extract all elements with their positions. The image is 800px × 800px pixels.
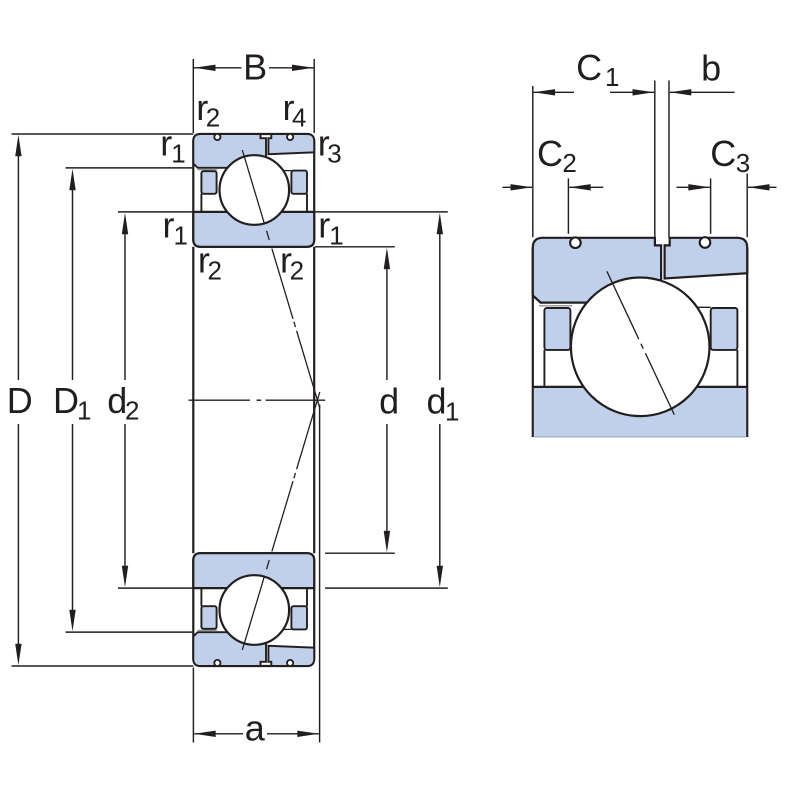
block left face [532,248,534,437]
dimension D [7,134,194,666]
dimension d2 [107,212,193,588]
svg-text:1: 1 [174,220,188,250]
svg-text:2: 2 [206,103,220,133]
inner ring [193,212,314,247]
svg-text:2: 2 [125,396,139,426]
contact angle line (detail) [607,271,674,414]
svg-text:d: d [379,381,399,422]
svg-text:C: C [576,47,602,88]
svg-text:b: b [701,48,721,89]
svg-text:2: 2 [290,255,304,285]
bottom cross-section block (mirror of top) [193,392,319,666]
dimension a [193,405,319,749]
inner ring body (cut off) [534,388,746,437]
lubrication hole dot right [287,134,293,140]
contact angle line solid through ball [242,150,264,223]
svg-text:d: d [427,381,447,422]
svg-text:B: B [243,47,267,88]
inner ring cut edge [534,436,746,438]
svg-text:D: D [7,380,33,421]
svg-text:3: 3 [327,138,341,168]
dimension b [655,48,735,238]
bearing axis centerline [189,399,250,401]
cage bar right [291,171,307,194]
shoulder relief gray line left [198,169,218,171]
contact angle centerline to pressure centre [265,226,320,408]
bore cylinder edge right [313,247,315,553]
block right face [746,248,748,437]
svg-text:a: a [245,707,266,748]
shoulder line to ball right [283,170,291,172]
dimension C3 [677,133,777,237]
cage land line right [306,194,308,212]
ball (detail) [571,278,710,417]
cage bar right (detail) [711,308,738,350]
shoulder line to ball right (detail) [690,306,711,308]
outer ring left piece (detail) [533,238,661,303]
svg-text:1: 1 [329,220,343,250]
svg-text:4: 4 [292,103,306,133]
cage bar left (detail) [544,308,570,350]
dimension B [193,47,314,134]
svg-text:1: 1 [605,62,619,92]
svg-text:C: C [710,133,736,174]
svg-text:1: 1 [77,396,91,426]
outer ring right piece (detail) [665,238,748,279]
dimension C2 [503,133,604,234]
lubrication hole dot left (detail) [570,237,581,248]
ball [220,155,290,225]
svg-text:D: D [53,380,79,421]
svg-text:1: 1 [171,138,185,168]
shoulder relief gray line left (detail) [539,305,572,307]
bearing block outline (top section) [193,134,314,247]
svg-text:3: 3 [736,148,750,178]
cage land line left [200,194,202,212]
dimension C1 [533,47,654,237]
lubrication hole dot left [214,134,220,140]
svg-text:C: C [537,133,563,174]
bore cylinder edge left [192,247,194,553]
cage bar left [201,171,216,194]
svg-text:2: 2 [562,148,576,178]
dimension d [315,247,399,553]
outer ring right piece [268,134,314,154]
cage land line left (detail) [543,350,545,387]
svg-text:2: 2 [208,255,222,285]
inner ring top line (detail) [533,386,747,388]
lubrication hole dot right (detail) [700,237,711,248]
cage land line right (detail) [736,350,738,387]
svg-text:1: 1 [445,396,459,426]
dimension D1 [53,168,193,632]
top cross-section block group (mirrored below for bottom block) [193,134,319,408]
outer ring left piece [193,134,266,168]
dimension d1 [315,212,459,588]
